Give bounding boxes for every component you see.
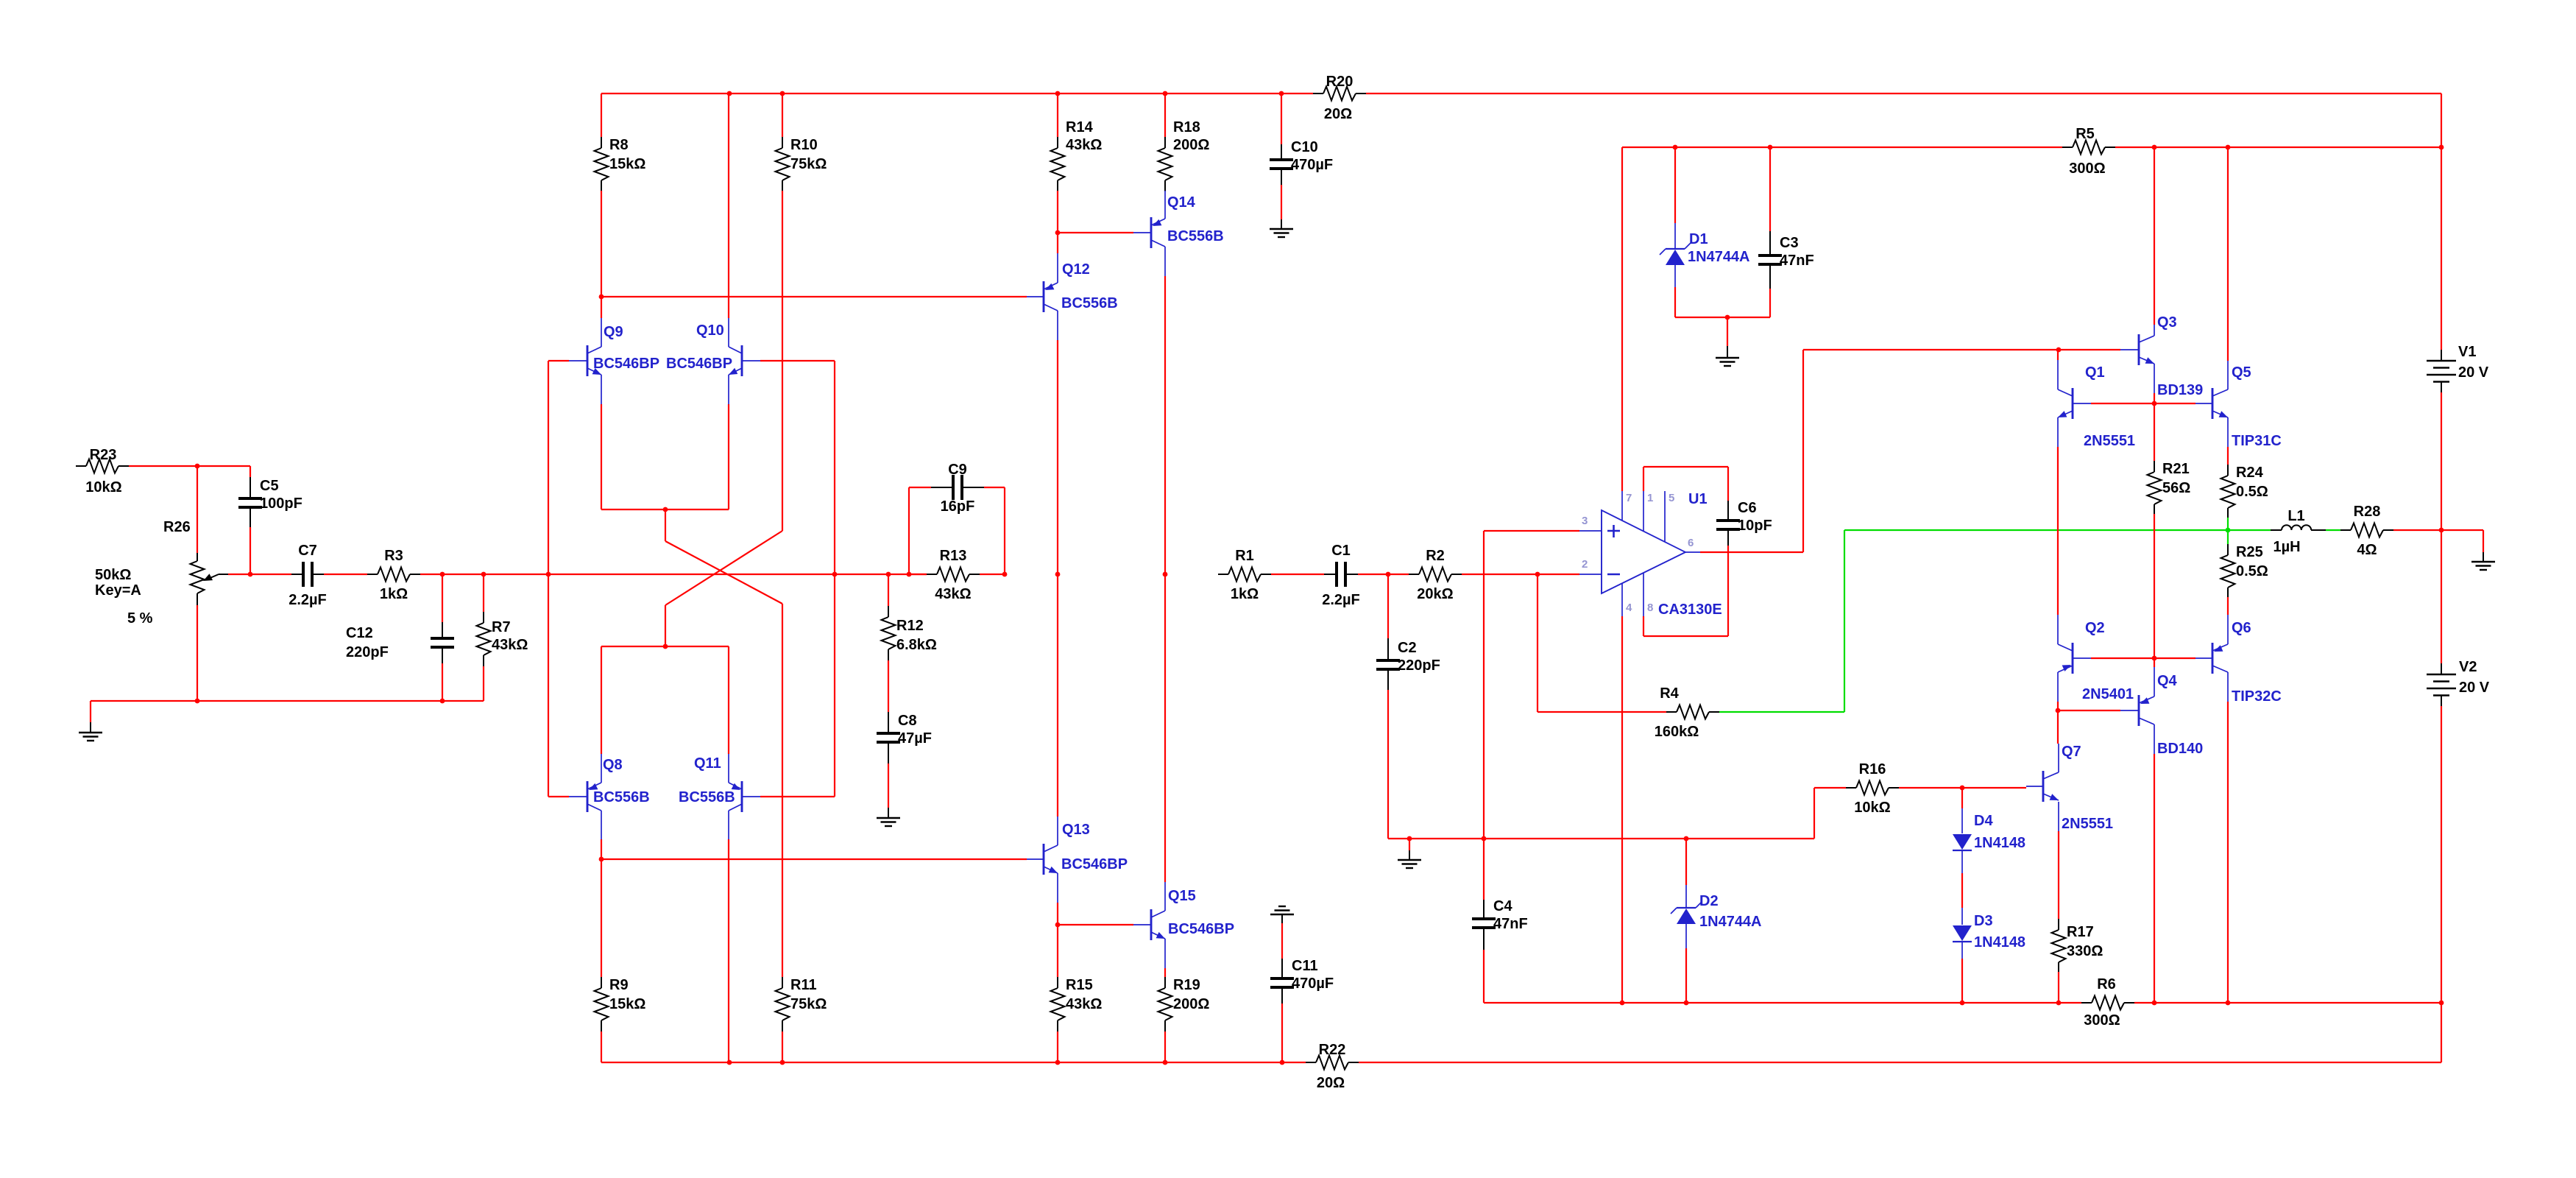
node C12 junction — [440, 572, 445, 577]
wire cross diagonal B — [665, 531, 782, 605]
ground D1/C3 — [1716, 317, 1739, 366]
resistor R3 — [367, 548, 420, 602]
svg-text:C1: C1 — [1331, 543, 1351, 559]
wire green output row — [1844, 529, 2271, 531]
wire pot top — [197, 466, 198, 553]
ground C11 (inverted) — [1270, 906, 1294, 923]
svg-text:D3: D3 — [1974, 913, 1993, 929]
svg-text:R8: R8 — [609, 137, 629, 153]
svg-text:C12: C12 — [346, 625, 373, 641]
transistor Q14 — [1133, 191, 1224, 276]
transistor Q13 — [1027, 817, 1128, 903]
node R7 top junction — [481, 572, 486, 577]
node Q5 collector rail junction — [2226, 145, 2231, 150]
wire Q13 collector up — [1057, 574, 1058, 817]
svg-text:43kΩ: 43kΩ — [1066, 137, 1102, 153]
svg-text:56Ω: 56Ω — [2162, 480, 2190, 496]
svg-text:BC556B: BC556B — [679, 789, 735, 805]
svg-text:C6: C6 — [1738, 500, 1757, 516]
wire pin7 V+ column — [1621, 147, 1623, 491]
node C9 left junction — [907, 572, 912, 577]
svg-text:1kΩ: 1kΩ — [380, 586, 408, 602]
wire R5 row rail — [1622, 147, 2441, 148]
wire Q9/Q10 emitters U — [601, 404, 729, 509]
svg-text:2.2µF: 2.2µF — [1322, 592, 1360, 608]
svg-text:R6: R6 — [2097, 976, 2116, 992]
wire Q1/Q2 cascade — [2057, 447, 2059, 615]
svg-text:1µH: 1µH — [2273, 539, 2300, 555]
svg-text:BC556B: BC556B — [1167, 228, 1224, 244]
node R11 bottom rail junction — [780, 1060, 785, 1065]
wire V2 to bottom rail — [2441, 1003, 2442, 1062]
svg-text:6.8kΩ: 6.8kΩ — [896, 637, 937, 653]
svg-text:Q6: Q6 — [2232, 620, 2251, 636]
svg-text:C7: C7 — [298, 543, 317, 559]
battery V1 — [2427, 94, 2489, 530]
wire Q15 collector up — [1164, 574, 1166, 882]
svg-text:20Ω: 20Ω — [1317, 1075, 1345, 1091]
capacitor C7 — [289, 543, 327, 608]
svg-text:R13: R13 — [940, 548, 967, 564]
node Q2/Q6 base rail junction — [2152, 656, 2157, 661]
svg-text:C9: C9 — [948, 462, 967, 478]
transistor Q15 — [1133, 882, 1234, 968]
svg-text:200Ω: 200Ω — [1173, 137, 1209, 153]
wire Q13 base rail — [601, 858, 1027, 860]
svg-text:BC556B: BC556B — [593, 789, 650, 805]
svg-text:16pF: 16pF — [941, 498, 975, 515]
svg-text:BC546BP: BC546BP — [666, 356, 732, 372]
wire mid ground rail — [1388, 838, 1814, 839]
wire Q15 base — [1058, 924, 1133, 925]
svg-text:R20: R20 — [1326, 74, 1354, 90]
node C12 bottom junction — [440, 699, 445, 704]
wire L1 to R28 — [2326, 529, 2340, 531]
node output/battery junction — [2439, 528, 2444, 533]
svg-text:BC546BP: BC546BP — [1168, 921, 1234, 937]
wire feedback column — [834, 361, 835, 797]
svg-text:300Ω: 300Ω — [2084, 1012, 2120, 1029]
svg-text:50kΩ: 50kΩ — [95, 567, 131, 583]
wire Q3 emitter to base rail — [2154, 393, 2155, 403]
svg-text:V1: V1 — [2458, 344, 2476, 360]
resistor R18 — [1158, 94, 1210, 191]
svg-text:15kΩ: 15kΩ — [609, 996, 645, 1012]
wire Q8 base stub — [548, 796, 569, 797]
svg-text:2N5551: 2N5551 — [2084, 433, 2135, 449]
wire Q1 collector up — [2057, 350, 2059, 360]
node Q3 collector rail junction — [2152, 145, 2157, 150]
transistor Q10 — [666, 318, 760, 404]
svg-text:Q14: Q14 — [1167, 194, 1196, 211]
ground output — [2471, 530, 2495, 570]
resistor R9 — [595, 839, 646, 1062]
resistor R10 — [776, 94, 827, 531]
svg-text:160kΩ: 160kΩ — [1655, 724, 1699, 740]
wire Q6 collector down — [2227, 702, 2229, 1003]
svg-text:BC546BP: BC546BP — [1061, 856, 1128, 872]
wire Q13 emitter down — [1057, 903, 1058, 925]
resistor R7 — [477, 574, 528, 701]
svg-text:1N4148: 1N4148 — [1974, 934, 2025, 950]
resistor R2 — [1409, 548, 1462, 602]
node V2 negative rail junction — [2439, 1001, 2444, 1006]
capacitor C1 — [1322, 543, 1360, 608]
svg-text:Q4: Q4 — [2157, 673, 2178, 689]
wire bottom U stub — [665, 605, 666, 646]
svg-text:TIP31C: TIP31C — [2232, 433, 2282, 449]
wire Q4 collector down — [2154, 754, 2155, 1003]
svg-text:Q7: Q7 — [2062, 744, 2081, 760]
wire Q10 collector to rail — [728, 94, 729, 318]
svg-text:R28: R28 — [2354, 504, 2381, 520]
node C2 junction — [1386, 572, 1391, 577]
resistor R28 — [2340, 504, 2393, 558]
transistor Q7 — [2026, 744, 2113, 832]
wire R3 to input node — [420, 574, 927, 575]
wire pot bottom rail — [91, 700, 484, 702]
wire op-amp output — [1700, 551, 1803, 553]
svg-text:BD139: BD139 — [2157, 382, 2203, 398]
resistor R4 — [1538, 685, 1719, 740]
zener D2 — [1671, 839, 1762, 1003]
svg-text:6: 6 — [1688, 537, 1694, 549]
svg-text:BC556B: BC556B — [1061, 295, 1118, 311]
node D1 rail junction — [1673, 145, 1678, 150]
svg-text:5: 5 — [1669, 492, 1674, 504]
transistor Q11 — [679, 754, 760, 839]
svg-text:R2: R2 — [1426, 548, 1445, 564]
transistor Q6 — [2195, 615, 2282, 705]
wire R2 to inverting input — [1462, 574, 1579, 575]
svg-text:Q8: Q8 — [603, 757, 623, 773]
svg-text:R12: R12 — [896, 618, 924, 634]
svg-text:43kΩ: 43kΩ — [935, 586, 971, 602]
node Q9 collector / Q12 base drive — [599, 294, 604, 300]
wire Q8/Q11 emitters U — [601, 646, 729, 754]
wire Q2 emitter down — [2057, 702, 2059, 710]
svg-text:220pF: 220pF — [1398, 657, 1440, 674]
svg-text:Q12: Q12 — [1062, 261, 1090, 278]
svg-text:C11: C11 — [1292, 958, 1318, 974]
svg-text:R7: R7 — [492, 619, 511, 635]
svg-text:C5: C5 — [260, 478, 279, 494]
svg-text:R17: R17 — [2067, 924, 2094, 940]
node Q11 collector bottom rail junction — [727, 1060, 732, 1065]
wire Q4 emitter up — [2154, 658, 2155, 667]
svg-text:Q13: Q13 — [1062, 822, 1090, 838]
svg-text:10kΩ: 10kΩ — [1854, 800, 1890, 816]
svg-text:1: 1 — [1647, 492, 1653, 504]
wire C7 to R3 — [324, 574, 367, 575]
resistor R1 — [1218, 548, 1271, 602]
capacitor C10 — [1270, 94, 1333, 219]
wire D1/C3 bottom — [1675, 317, 1770, 318]
resistor R8 — [595, 94, 646, 318]
transistor Q3 — [2120, 314, 2203, 398]
svg-text:2: 2 — [1582, 558, 1588, 571]
svg-text:4: 4 — [1626, 602, 1632, 614]
svg-text:Q1: Q1 — [2085, 364, 2105, 381]
transistor Q5 — [2195, 361, 2282, 449]
svg-text:R26: R26 — [163, 519, 191, 535]
node D3 negative rail junction — [1960, 1001, 1965, 1006]
svg-text:Q10: Q10 — [696, 322, 724, 339]
capacitor C8 — [877, 712, 932, 808]
svg-text:R15: R15 — [1066, 977, 1093, 993]
node Q12/Q13 collectors junction — [1055, 572, 1061, 577]
svg-text:C3: C3 — [1780, 235, 1799, 251]
svg-text:20Ω: 20Ω — [1324, 106, 1352, 122]
svg-text:47nF: 47nF — [1493, 916, 1528, 932]
svg-text:R23: R23 — [90, 447, 117, 463]
svg-text:R25: R25 — [2236, 544, 2263, 560]
resistor R19 — [1158, 968, 1210, 1062]
svg-text:R5: R5 — [2076, 126, 2095, 142]
wire Q2 base rail — [2091, 657, 2195, 659]
node Q10 collector rail junction — [727, 91, 732, 96]
svg-text:10pF: 10pF — [1738, 518, 1772, 534]
transistor Q2 — [2058, 615, 2134, 702]
resistor R21 — [2148, 403, 2191, 658]
wire R6 negative rail — [1484, 1002, 2441, 1004]
diode D4 — [1953, 788, 2025, 908]
svg-text:470µF: 470µF — [1292, 976, 1334, 992]
zener D1 — [1660, 147, 1750, 317]
capacitor C3 — [1758, 147, 1814, 317]
transistor Q8 — [569, 754, 650, 839]
node Q4 negative rail junction — [2152, 1001, 2157, 1006]
svg-text:C8: C8 — [898, 713, 917, 729]
svg-text:1N4744A: 1N4744A — [1688, 249, 1750, 265]
resistor R11 — [776, 604, 827, 1062]
wire bottom V- rail — [601, 1062, 2441, 1063]
wire cross diagonal A — [665, 541, 782, 604]
transistor Q12 — [1027, 253, 1118, 340]
svg-text:5 %: 5 % — [127, 610, 153, 627]
svg-text:Q5: Q5 — [2232, 364, 2251, 381]
svg-text:7: 7 — [1626, 492, 1632, 504]
svg-text:R19: R19 — [1173, 977, 1200, 993]
resistor R20 — [1313, 74, 1366, 122]
op-amp U1 CA3130E — [1579, 491, 1722, 618]
wire Q1 base rail — [2091, 403, 2195, 404]
ground C8 — [877, 808, 900, 826]
node ground rail junction — [1407, 836, 1412, 842]
svg-text:200Ω: 200Ω — [1173, 996, 1209, 1012]
wire rail to R16 corner — [1814, 788, 1815, 839]
svg-text:L1: L1 — [2287, 508, 2304, 524]
wire green column up — [1844, 530, 1845, 712]
node emitters top U junction — [663, 507, 668, 512]
node Q13 emitter/Q15 base/R15 junction — [1055, 923, 1061, 928]
svg-text:15kΩ: 15kΩ — [609, 156, 645, 172]
wire Q11 base to feedback column — [760, 796, 835, 797]
node D2 negative rail junction — [1684, 1001, 1689, 1006]
wire noninv column down — [1483, 531, 1485, 839]
node C4 junction — [1482, 836, 1487, 842]
resistor R17 — [2052, 831, 2103, 1003]
capacitor C9 — [909, 462, 1005, 574]
wire R4 branch down — [1537, 574, 1538, 712]
svg-text:R10: R10 — [790, 137, 818, 153]
wire Q10 base to feedback column — [760, 360, 835, 361]
svg-text:1kΩ: 1kΩ — [1231, 586, 1259, 602]
wire Q3 collector — [2154, 147, 2155, 325]
wire Q12 collector down — [1057, 340, 1058, 574]
node R14/Q12 emitter/Q14 base junction — [1055, 230, 1061, 236]
node Q14/Q15 collectors junction — [1163, 572, 1168, 577]
svg-text:3: 3 — [1582, 515, 1588, 527]
wire wiper to C7 — [228, 574, 291, 575]
ground mid rail — [1398, 839, 1421, 868]
svg-text:100pF: 100pF — [260, 495, 302, 512]
transistor Q4 — [2120, 667, 2203, 757]
svg-text:C4: C4 — [1493, 898, 1512, 914]
node Q2/Q4/Q7 junction — [2056, 708, 2061, 713]
resistor R22 — [1306, 1042, 1359, 1091]
node R17 negative rail junction — [2056, 1001, 2062, 1006]
svg-text:C2: C2 — [1398, 640, 1417, 656]
svg-text:470µF: 470µF — [1291, 157, 1333, 173]
node Q6 negative rail junction — [2226, 1001, 2231, 1006]
svg-text:D4: D4 — [1974, 813, 1993, 829]
node D4 junction — [1960, 786, 1965, 791]
svg-text:1N4744A: 1N4744A — [1699, 914, 1762, 930]
node R12 junction — [886, 572, 891, 577]
wire noninverting input — [1484, 530, 1579, 532]
resistor R5 — [2062, 126, 2115, 177]
svg-text:R1: R1 — [1235, 548, 1254, 564]
svg-text:75kΩ: 75kΩ — [790, 156, 827, 172]
svg-text:Q9: Q9 — [604, 324, 623, 340]
node feedback/signal junction — [832, 572, 838, 577]
svg-text:330Ω: 330Ω — [2067, 943, 2103, 959]
svg-text:U1: U1 — [1688, 491, 1708, 507]
diode D3 — [1953, 908, 2025, 1003]
node pin4 negative rail junction — [1620, 1001, 1625, 1006]
transistor Q9 — [569, 318, 659, 404]
svg-text:TIP32C: TIP32C — [2232, 688, 2282, 705]
transistor Q1 — [2058, 360, 2135, 449]
wire top U stub — [665, 509, 666, 541]
svg-text:43kΩ: 43kΩ — [492, 637, 528, 653]
node pot bottom rail junction — [195, 699, 200, 704]
wire Q7 collector up — [2057, 710, 2059, 744]
svg-text:0.5Ω: 0.5Ω — [2236, 563, 2268, 579]
svg-text:R16: R16 — [1859, 761, 1886, 777]
wire pin4 V- column — [1621, 616, 1623, 1003]
svg-text:D2: D2 — [1699, 893, 1719, 909]
svg-text:2.2µF: 2.2µF — [289, 592, 327, 608]
svg-text:R9: R9 — [609, 977, 629, 993]
wire top V+ rail — [601, 93, 2441, 94]
node C10 rail junction — [1279, 91, 1284, 96]
resistor R24 — [2221, 447, 2268, 529]
node D1/C3 ground junction — [1725, 315, 1730, 320]
svg-text:Q15: Q15 — [1168, 888, 1196, 904]
svg-text:R11: R11 — [790, 977, 817, 993]
svg-text:Key=A: Key=A — [95, 582, 141, 599]
node R23/R26/C5 junction — [195, 464, 200, 469]
ground bottom-left — [79, 701, 102, 741]
svg-text:2N5401: 2N5401 — [2082, 686, 2134, 702]
svg-text:R22: R22 — [1319, 1042, 1346, 1058]
svg-text:10kΩ: 10kΩ — [85, 479, 121, 495]
wire Q12 emitter — [1057, 233, 1058, 253]
svg-text:R18: R18 — [1173, 119, 1200, 135]
node R19 bottom junction — [1163, 1060, 1168, 1065]
node C9/R13 right junction — [1002, 572, 1008, 577]
resistor R25 — [2221, 532, 2268, 615]
svg-text:Q11: Q11 — [694, 755, 721, 772]
node D2 junction — [1684, 836, 1689, 842]
wire Q9 base stub — [548, 360, 569, 361]
wire pin1/pin8 loop — [1643, 467, 1728, 636]
wire Q14 base — [1058, 232, 1133, 233]
svg-text:47µF: 47µF — [898, 730, 932, 747]
node green output junction — [2226, 528, 2231, 533]
svg-text:C10: C10 — [1291, 139, 1318, 155]
resistor R6 — [2081, 976, 2134, 1029]
svg-text:1N4148: 1N4148 — [1974, 835, 2025, 851]
resistor R13 — [909, 548, 1005, 602]
svg-text:4Ω: 4Ω — [2357, 542, 2377, 558]
svg-text:CA3130E: CA3130E — [1658, 602, 1722, 618]
svg-text:20 V: 20 V — [2459, 680, 2490, 696]
wire output up column — [1802, 350, 1804, 552]
wire bases column left — [548, 361, 549, 797]
node Q3 base junction — [2056, 348, 2062, 353]
svg-text:R4: R4 — [1660, 685, 1679, 702]
node C3 rail junction — [1768, 145, 1773, 150]
svg-text:BC546BP: BC546BP — [593, 356, 659, 372]
svg-text:20kΩ: 20kΩ — [1417, 586, 1453, 602]
node V1 rail junction — [2439, 145, 2444, 150]
svg-text:47nF: 47nF — [1780, 253, 1814, 269]
wire Q14 collector down — [1164, 276, 1166, 574]
svg-text:300Ω: 300Ω — [2069, 161, 2105, 177]
capacitor C11 — [1270, 923, 1334, 1062]
node Q8 collector / Q13 base drive — [599, 857, 604, 862]
node Q9/Q8 base junction — [546, 572, 551, 577]
inductor L1 — [2271, 508, 2326, 555]
svg-text:Q2: Q2 — [2085, 620, 2105, 636]
svg-text:220pF: 220pF — [346, 644, 389, 660]
wire pot bottom — [197, 605, 198, 701]
capacitor C6 — [1716, 500, 1772, 546]
capacitor C2 — [1376, 574, 1440, 839]
svg-text:R24: R24 — [2236, 465, 2264, 481]
svg-text:20 V: 20 V — [2458, 364, 2489, 381]
resistor R15 — [1051, 925, 1103, 1062]
svg-text:R3: R3 — [384, 548, 403, 564]
svg-text:BD140: BD140 — [2157, 741, 2203, 757]
node C11 bottom junction — [1280, 1060, 1285, 1065]
svg-text:43kΩ: 43kΩ — [1066, 996, 1102, 1012]
potentiometer R26 — [95, 519, 228, 627]
svg-text:R14: R14 — [1066, 119, 1094, 135]
node inverting input / R4 junction — [1535, 572, 1540, 577]
svg-text:8: 8 — [1647, 602, 1653, 614]
resistor R12 — [882, 574, 937, 712]
wire Q11 collector to bottom rail — [728, 839, 729, 1062]
svg-text:V2: V2 — [2459, 659, 2477, 675]
node Q1/Q5 base rail junction — [2152, 401, 2157, 406]
resistor R23 — [76, 447, 129, 495]
svg-text:Q3: Q3 — [2157, 314, 2177, 331]
capacitor C5 — [238, 466, 302, 574]
